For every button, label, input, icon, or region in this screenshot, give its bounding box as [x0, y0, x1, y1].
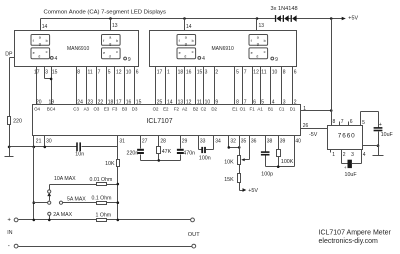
- svg-text:470n: 470n: [183, 151, 195, 157]
- svg-text:e: e: [33, 51, 35, 55]
- wire: C6 to 7660 pin 4: [352, 163, 362, 165]
- terminal OUT plus: [191, 218, 195, 222]
- svg-text:e: e: [103, 51, 105, 55]
- wire: display pin 12 to U1 pin 17: [115, 67, 122, 106]
- svg-text:BC4: BC4: [47, 107, 56, 112]
- wire: display pin 10 to U1 pin 16: [125, 67, 132, 106]
- node: rail pin30 junction: [44, 146, 47, 149]
- svg-text:+: +: [379, 122, 382, 128]
- svg-text:11: 11: [261, 70, 266, 76]
- wire: display pin 8 to U1 pin 3: [282, 67, 286, 106]
- svg-text:11: 11: [88, 70, 93, 76]
- svg-text:4: 4: [363, 152, 366, 158]
- svg-text:IN: IN: [7, 230, 12, 236]
- wire: display pin 7 to U1 pin 7: [243, 67, 247, 106]
- svg-text:g: g: [257, 42, 259, 46]
- diode D2 1N4148: [283, 15, 289, 22]
- svg-text:b: b: [116, 39, 118, 43]
- svg-text:e: e: [179, 51, 181, 55]
- arrow +5V reference supply: [243, 188, 259, 194]
- capacitor C6 10uF charge pump: [344, 160, 357, 178]
- svg-text:27: 27: [142, 138, 148, 144]
- node: osc rail junction pin39: [277, 165, 280, 168]
- svg-text:40: 40: [295, 138, 301, 144]
- wire: junction to 7660 pin 3: [363, 145, 379, 147]
- svg-text:electronics-diy.com: electronics-diy.com: [319, 238, 379, 245]
- svg-text:3x 1N4148: 3x 1N4148: [271, 6, 298, 12]
- wire: display pin 11 to U1 pin 23: [87, 67, 94, 106]
- svg-text:F3: F3: [112, 107, 118, 112]
- wire: 7660 pin 2 down to C6: [341, 150, 343, 164]
- wire: rail from C1 to pin31 column: [82, 146, 118, 148]
- svg-text:A2: A2: [182, 107, 188, 112]
- svg-text:MAN6910: MAN6910: [212, 46, 234, 52]
- display U2 digit 2 7-segment: [102, 35, 121, 59]
- svg-text:5: 5: [236, 70, 239, 76]
- svg-text:3: 3: [45, 70, 48, 76]
- wire: display pin 7 to U1 pin 22: [97, 67, 104, 106]
- svg-text:A1: A1: [257, 107, 263, 112]
- wire: display pin 10 to U1 pin 4: [271, 67, 278, 106]
- wire: U1 pin 29 down: [181, 136, 188, 149]
- svg-text:10n: 10n: [75, 152, 84, 158]
- svg-text:10A MAX: 10A MAX: [54, 176, 76, 182]
- wire: R6 down to osc rail: [278, 157, 280, 167]
- svg-text:5A MAX: 5A MAX: [67, 196, 86, 202]
- wire: display pin 12 to U1 pin 6: [253, 67, 260, 106]
- svg-text:2A MAX: 2A MAX: [53, 212, 72, 218]
- arrow +5V supply top right: [342, 15, 359, 21]
- switch contact 10A: [48, 190, 51, 193]
- resistor R7 0.01 Ohm: [90, 177, 113, 186]
- svg-text:31: 31: [119, 138, 125, 144]
- wire: display pin 2 to U1 pin 9: [215, 67, 219, 106]
- svg-text:0.1 Ohm: 0.1 Ohm: [92, 196, 112, 202]
- svg-text:10: 10: [272, 70, 278, 76]
- svg-text:12: 12: [253, 70, 259, 76]
- ground symbol right: [373, 146, 384, 156]
- svg-text:6: 6: [136, 70, 139, 76]
- resistor R2 10K on pin31: [105, 160, 119, 167]
- wire: common to wiper: [34, 202, 48, 204]
- svg-text:9: 9: [275, 57, 278, 63]
- wire: R5 to +5V arrow: [239, 183, 241, 191]
- svg-text:c: c: [192, 50, 194, 54]
- svg-text:16: 16: [186, 70, 192, 76]
- svg-text:15: 15: [52, 70, 58, 76]
- svg-text:18: 18: [178, 70, 184, 76]
- wire: R3 down to tie: [158, 154, 160, 161]
- wire: display pin 6 to U1 pin 15: [135, 67, 142, 106]
- svg-text:b: b: [192, 39, 194, 43]
- node: switch common junction: [33, 201, 36, 204]
- svg-text:g: g: [39, 42, 41, 46]
- svg-text:100K: 100K: [281, 159, 294, 165]
- svg-text:15K: 15K: [224, 177, 234, 183]
- svg-text:17: 17: [157, 70, 163, 76]
- svg-text:10K: 10K: [224, 159, 234, 165]
- svg-text:g: g: [109, 42, 111, 46]
- svg-text:b: b: [46, 39, 48, 43]
- svg-text:F2: F2: [174, 107, 180, 112]
- wire: display pin 5 to U1 pin 8: [235, 67, 240, 106]
- wire: 2A contact down to main line: [49, 216, 51, 220]
- node: display2 pin14 junction: [183, 17, 186, 20]
- svg-text:D2: D2: [211, 107, 217, 112]
- svg-text:7: 7: [98, 70, 101, 76]
- svg-text:8: 8: [283, 70, 286, 76]
- svg-text:220: 220: [13, 119, 22, 125]
- svg-text:21: 21: [36, 138, 42, 144]
- svg-text:C2: C2: [201, 107, 207, 112]
- svg-text:c: c: [264, 50, 266, 54]
- svg-text:0.01 Ohm: 0.01 Ohm: [90, 177, 113, 183]
- wire: DP from display box left edge: [10, 57, 15, 59]
- svg-text:47K: 47K: [162, 149, 172, 155]
- svg-text:Common Anode (CA) 7-segment L: Common Anode (CA) 7-segment LED Displays: [44, 9, 166, 15]
- wire: display pin 16 to U1 pin 12: [185, 67, 192, 106]
- pin marker: U2 dp pin 9: [124, 57, 131, 63]
- svg-text:DP: DP: [5, 52, 13, 58]
- wire: C5 down to osc rail: [265, 156, 267, 167]
- wire: DP vertical down to R1 and ground rail: [9, 58, 11, 117]
- switch contact 5A: [59, 201, 62, 204]
- svg-text:-5V: -5V: [309, 132, 318, 138]
- svg-text:+: +: [344, 165, 347, 170]
- svg-text:e: e: [251, 51, 253, 55]
- capacitor C5 100p on pin38: [261, 151, 273, 177]
- svg-text:O2: O2: [153, 107, 159, 112]
- display U2 digit 1 7-segment: [31, 35, 50, 59]
- wire: R8 to shunt bus: [107, 202, 118, 204]
- wire: display pin 17 to U1 pin 20: [34, 67, 42, 106]
- svg-text:6: 6: [350, 119, 353, 125]
- switch SW1 wiper contact: [47, 193, 51, 204]
- svg-text:A3: A3: [84, 107, 90, 112]
- svg-text:10K: 10K: [105, 161, 115, 167]
- svg-text:39: 39: [280, 138, 286, 144]
- svg-text:1 Ohm: 1 Ohm: [96, 213, 112, 219]
- op-amp U1 ICL7107 box: [33, 105, 301, 136]
- svg-text:7: 7: [341, 119, 344, 125]
- svg-text:ICL7107 Ampere Meter: ICL7107 Ampere Meter: [319, 229, 392, 236]
- wire: display pin 18 to U1 pin 13: [177, 67, 184, 106]
- pin marker: U3 dp pin 4: [198, 56, 205, 62]
- labels: U1 segment signal names: [34, 107, 296, 112]
- svg-text:7660: 7660: [338, 133, 356, 140]
- svg-text:2: 2: [343, 152, 346, 158]
- svg-text:4: 4: [202, 56, 205, 62]
- svg-text:12: 12: [116, 70, 122, 76]
- svg-text:8: 8: [77, 70, 80, 76]
- wire: +5V junction down to 7660 pin 8: [331, 111, 333, 126]
- capacitor C7 10uF output: [374, 122, 394, 138]
- display U3 digit 4 7-segment: [249, 35, 268, 59]
- svg-text:+: +: [7, 218, 11, 224]
- wire: rail to display1 pin 14: [41, 19, 48, 31]
- svg-text:C3: C3: [73, 107, 79, 112]
- svg-text:+5V: +5V: [348, 15, 358, 21]
- svg-text:15: 15: [197, 70, 203, 76]
- pin marker: U2 dp pin 4: [50, 56, 57, 62]
- wire: pot to R5: [239, 165, 241, 174]
- wire: IN+ main current path to R9: [19, 219, 97, 221]
- svg-text:26: 26: [303, 123, 309, 129]
- svg-text:1: 1: [332, 152, 335, 158]
- svg-text:d: d: [38, 55, 40, 59]
- svg-text:10uF: 10uF: [381, 132, 394, 138]
- wire: display pin 5 to U1 pin 18: [107, 67, 114, 106]
- svg-text:B3: B3: [122, 107, 128, 112]
- wire: rail between diodes D1-D2: [281, 18, 283, 20]
- svg-text:-: -: [8, 243, 10, 250]
- node: C7/pin3/ground junction: [377, 144, 380, 147]
- wire: U1 pin 21 to analog ground rail: [34, 136, 42, 147]
- wire: rail to display2 pin 13: [257, 19, 265, 31]
- wire: IN- to OUT- return path: [19, 246, 192, 248]
- wire: ground rail left segment: [10, 146, 77, 148]
- capacitor C2 220n on pin27: [127, 149, 144, 157]
- svg-text:28: 28: [160, 138, 166, 144]
- svg-text:O3: O3: [93, 107, 99, 112]
- svg-text:c: c: [116, 50, 118, 54]
- svg-text:38: 38: [267, 138, 273, 144]
- resistor R8 0.1 Ohm: [92, 196, 112, 205]
- resistor R6 100K on pin39: [277, 150, 294, 166]
- display U3 digit 3 7-segment: [177, 35, 196, 59]
- svg-text:D3: D3: [132, 107, 138, 112]
- svg-text:10uF: 10uF: [345, 172, 358, 178]
- svg-text:d: d: [184, 55, 186, 59]
- svg-text:14: 14: [42, 24, 48, 30]
- op-amp U4 ICL7660 box: [328, 126, 363, 150]
- svg-text:OUT: OUT: [188, 232, 200, 238]
- svg-text:B1: B1: [268, 107, 274, 112]
- wire: rail to display2 pin 14: [185, 19, 192, 31]
- wire: +5V vertical from top rail down to U1 pin1 junction: [331, 19, 333, 111]
- wire: U1 pin 38 down: [266, 136, 273, 152]
- svg-text:5: 5: [108, 70, 111, 76]
- wire: display1 pin 3 jog to pin 15 column: [45, 67, 52, 79]
- svg-text:13: 13: [112, 23, 118, 29]
- svg-text:4: 4: [55, 56, 58, 62]
- display U2 MAN6910 box (left): [15, 31, 139, 67]
- wire: display pin 11 to U1 pin 5: [261, 67, 267, 106]
- pin marker: U3 dp pin 9: [271, 57, 278, 63]
- resistor R3 47K on pin28: [157, 147, 172, 155]
- svg-text:6: 6: [294, 70, 297, 76]
- svg-text:100n: 100n: [199, 156, 211, 162]
- svg-text:3: 3: [205, 70, 208, 76]
- capacitor C4 100n between pins 33 and 34: [199, 147, 214, 162]
- node: tie junction pin28: [158, 159, 161, 162]
- svg-text:36: 36: [251, 138, 257, 144]
- wire: 5A contact to R8: [63, 202, 97, 204]
- capacitor C1 10n (series in rail): [75, 142, 84, 157]
- wire: C7 to ground junction: [378, 132, 380, 146]
- svg-text:9: 9: [128, 57, 131, 63]
- svg-text:35: 35: [241, 138, 247, 144]
- svg-text:ICL7107: ICL7107: [147, 118, 173, 125]
- svg-text:E3: E3: [104, 107, 110, 112]
- pin labels: 7660 bottom pins 1 2 3 4: [331, 150, 366, 158]
- wire: integrator tie rail 27-28-29: [141, 160, 181, 162]
- wire: diodes to +5V arrow: [297, 18, 343, 20]
- node: junction +5V / U1 pin1 / 7660 pin8: [330, 109, 333, 112]
- wire: U1 pin 33 down: [199, 136, 206, 150]
- wire: U1 pin 30 to ground rail: [45, 136, 52, 147]
- svg-text:B2: B2: [193, 107, 199, 112]
- wire: U1 pin 35 down: [240, 136, 247, 156]
- wire: display pin 6 to U1 pin 2: [293, 67, 297, 106]
- svg-text:1: 1: [303, 106, 306, 112]
- wire: pin21 rail down to range switch common: [33, 147, 35, 220]
- terminal OUT minus: [192, 244, 196, 248]
- wire: R1 to ground rail: [9, 125, 11, 147]
- svg-text:E2: E2: [163, 107, 169, 112]
- svg-text:O1: O1: [240, 107, 246, 112]
- svg-text:d: d: [256, 55, 258, 59]
- wire: U1 pin 1 to +5V line: [301, 106, 332, 112]
- svg-text:100p: 100p: [261, 172, 273, 178]
- terminal IN plus: [7, 218, 18, 224]
- resistor R1 220: [8, 117, 22, 125]
- svg-text:2: 2: [215, 70, 218, 76]
- wire: U1 pin 36 down and wiper arrow: [241, 136, 256, 162]
- svg-text:29: 29: [182, 138, 188, 144]
- svg-text:3: 3: [351, 152, 354, 158]
- node: main line / shunt bus junction: [117, 219, 120, 222]
- svg-text:MAN6910: MAN6910: [67, 46, 89, 52]
- node: rail/DP junction: [8, 146, 11, 149]
- svg-text:C1: C1: [279, 107, 285, 112]
- potentiometer R4 10K: [224, 156, 240, 166]
- switch contact 2A: [48, 212, 51, 215]
- wire: display pin 3 to U1 pin 10: [204, 67, 211, 106]
- wire: U1 pin 34 down: [214, 136, 221, 150]
- wire: osc tie rail 38-39-40: [266, 166, 295, 168]
- display U3 MAN6910 box (right): [150, 31, 297, 67]
- wire: R2 down to shunt bus: [117, 167, 119, 220]
- pin labels: 7660 top pins 8 7 6 5: [333, 119, 366, 126]
- node: +5V junction on top rail: [330, 17, 333, 20]
- svg-text:220n: 220n: [127, 151, 139, 157]
- wire: U1 pin 39 down: [279, 136, 286, 150]
- wire: U1 pin 40 down: [295, 136, 302, 167]
- wire: U1 pin 26 to 7660 (-5V net): [301, 123, 328, 129]
- svg-text:34: 34: [215, 138, 221, 144]
- wire: U1 pin 28 down: [159, 136, 167, 147]
- wire: R7 to shunt bus: [107, 184, 118, 186]
- terminal IN minus: [8, 243, 18, 250]
- diode D3 1N4148: [291, 15, 297, 22]
- svg-text:D1: D1: [290, 107, 296, 112]
- node: shunt bus junction row2: [117, 201, 120, 204]
- svg-text:10: 10: [126, 70, 132, 76]
- svg-text:b: b: [264, 39, 266, 43]
- node: junction pin3/pin15: [50, 78, 53, 81]
- svg-text:14: 14: [186, 24, 192, 30]
- wire: rail to display1 pin 13: [111, 19, 118, 31]
- wire: U1 pin 27 down: [141, 136, 148, 149]
- svg-text:5: 5: [362, 120, 365, 126]
- node: main line / 2A contact junction: [48, 219, 51, 222]
- wire: display pin 1 to U1 pin 14: [166, 67, 173, 106]
- wire: top +5V anode rail: [41, 18, 276, 20]
- svg-text:F1: F1: [250, 107, 256, 112]
- wire: U1 pin 31 down: [118, 136, 126, 160]
- svg-text:+5V: +5V: [248, 188, 258, 194]
- svg-text:33: 33: [200, 138, 206, 144]
- svg-text:c: c: [46, 50, 48, 54]
- resistor R5 15K: [224, 174, 240, 183]
- wire: pin32 tie to pin35 column: [229, 147, 240, 149]
- wire: C3 down to tie: [180, 155, 182, 161]
- node: shunt bus junction row1: [117, 183, 120, 186]
- svg-text:8: 8: [333, 119, 336, 125]
- wire: display pin 8 to U1 pin 24: [77, 67, 84, 106]
- node: main line / switch column junction: [33, 219, 36, 222]
- svg-text:17: 17: [34, 70, 40, 76]
- svg-text:13: 13: [259, 23, 265, 29]
- node: display2 pin13 junction: [256, 17, 259, 20]
- svg-text:30: 30: [46, 138, 52, 144]
- capacitor C3 470n on pin29: [177, 149, 195, 157]
- svg-text:E1: E1: [232, 107, 238, 112]
- wire: rail between diodes D2-D3: [289, 18, 291, 20]
- wire: 10A contact up to 0.01 ohm row: [49, 185, 51, 190]
- node: rail pin21 junction: [33, 146, 36, 149]
- node: junction pin32: [228, 146, 231, 149]
- node: junction pin35 column: [238, 146, 241, 149]
- svg-text:d: d: [109, 55, 111, 59]
- svg-text:1: 1: [167, 70, 170, 76]
- resistor R9 1 Ohm: [96, 213, 112, 222]
- svg-text:7: 7: [244, 70, 247, 76]
- wire: C2 to integrator tie: [140, 155, 142, 161]
- wire: display pin 17 to U1 pin 25: [156, 67, 163, 106]
- wire: 7660 pin 5 up and over to C7: [360, 112, 362, 126]
- svg-text:O4: O4: [34, 107, 40, 112]
- node: display1 pin13 junction: [109, 17, 112, 20]
- wire: R9 to OUT+: [107, 219, 191, 221]
- wire: U1 pin 32 down to ref tie: [229, 136, 237, 148]
- diode D1 1N4148: [275, 15, 281, 22]
- wire: display pin 15 to U1 pin 19: [49, 67, 58, 106]
- wire: display pin 15 to U1 pin 11: [196, 67, 203, 106]
- ground symbol left: [5, 147, 14, 157]
- svg-text:32: 32: [230, 138, 236, 144]
- svg-text:g: g: [185, 42, 187, 46]
